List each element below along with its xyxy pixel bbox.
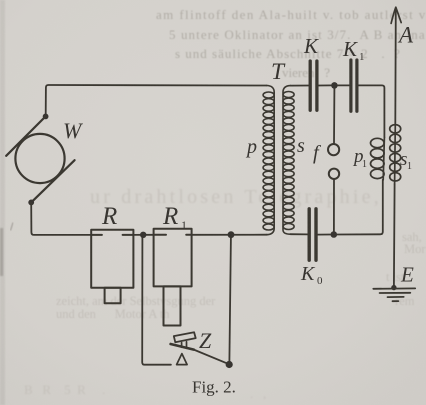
spark gap f xyxy=(328,144,339,179)
wire R1 to coil p bottom xyxy=(192,234,267,236)
wire K to junction xyxy=(319,84,331,86)
resistor R xyxy=(91,230,133,303)
wire spark gap to bottom bus xyxy=(333,179,335,231)
wire K1 to coil p1 top xyxy=(359,85,385,137)
resistor R1 xyxy=(154,229,192,326)
transformer T secondary coil s xyxy=(283,86,294,235)
capacitor K xyxy=(310,61,317,110)
wire junction to K1 xyxy=(338,84,350,86)
telegraph key Z xyxy=(171,332,229,364)
wire top-left from generator to transformer primary xyxy=(46,85,267,115)
wire key pivot up to bus xyxy=(229,238,231,361)
junction dot generator bottom xyxy=(28,200,34,206)
ghost bleed-through text layer (decorative) xyxy=(156,7,426,80)
wire coil s bottom to capacitor K0 xyxy=(291,233,308,235)
wire generator bottom to resistor R xyxy=(31,203,91,235)
oscillation transformer secondary coil s1 xyxy=(390,124,401,184)
wire K0 to junction xyxy=(318,234,331,236)
junction dot key pivot xyxy=(226,361,233,368)
junction dot bottom bus xyxy=(331,231,338,238)
capacitor K1 xyxy=(351,60,357,111)
transformer T primary coil p xyxy=(263,86,274,235)
ground E xyxy=(373,288,415,301)
junction dot ground xyxy=(391,285,396,290)
junction dot capacitor bridge xyxy=(331,82,338,89)
edge smudge (decorative) xyxy=(0,228,3,276)
paper grain (decorative) xyxy=(0,0,1,1)
wire coil s1 to ground xyxy=(393,184,396,287)
oscillation transformer primary coil p1 xyxy=(371,138,385,180)
junction dot key tap left xyxy=(140,232,146,238)
antenna wire A with arrow xyxy=(394,8,397,124)
wire coil s top to capacitor K xyxy=(291,85,309,87)
generator W xyxy=(6,116,74,202)
capacitor K0 xyxy=(309,209,316,260)
wire junction to coil p1 bottom xyxy=(337,180,383,235)
junction dot generator top xyxy=(43,114,49,120)
wire R to R1 xyxy=(133,234,153,236)
wire key branch from left tap down xyxy=(142,238,171,365)
junction dot key tap right xyxy=(228,231,235,238)
key contact triangle xyxy=(177,354,188,365)
wire junction down to spark gap xyxy=(333,89,335,144)
